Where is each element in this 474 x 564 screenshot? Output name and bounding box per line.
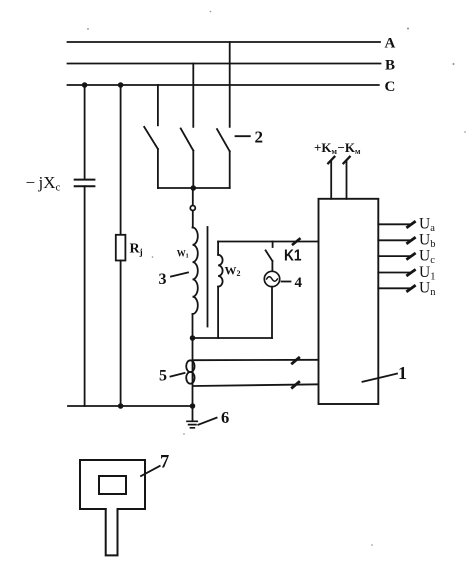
- svg-text:6: 6: [221, 408, 229, 427]
- wire capacitor branch lower: [84, 186, 86, 406]
- wire W2 top to box: [218, 241, 318, 243]
- leader dash to label 6: [198, 418, 216, 425]
- svg-text:− jXc: − jXc: [26, 173, 61, 194]
- coil 5 loop upper: [186, 360, 194, 372]
- wire W2 upper lead: [217, 242, 219, 255]
- wire switch drop phase C: [157, 85, 159, 125]
- switch 2 pole b blade: [181, 129, 194, 151]
- wire output Un: [378, 287, 409, 289]
- wire ground lead: [192, 406, 194, 421]
- hatch slash on upper coil wire: [292, 358, 299, 364]
- wire W2 lower lead: [217, 287, 219, 338]
- leader dash to label 3: [171, 273, 188, 277]
- wire switch drop phase B: [192, 64, 194, 127]
- wire bottom rail: [68, 405, 193, 407]
- probe 7 window: [99, 476, 126, 494]
- node dot rail main: [190, 403, 196, 409]
- svg-text:7: 7: [160, 453, 169, 473]
- wire W1 bottom to junction: [192, 314, 194, 338]
- wire output Ul: [378, 272, 409, 274]
- wire main vertical above terminal: [192, 188, 194, 206]
- switch 2 pole c blade: [217, 129, 230, 151]
- arrow slash Ub: [408, 238, 415, 243]
- wire switch drop phase A: [229, 42, 231, 127]
- svg-text:4: 4: [295, 275, 303, 291]
- hatch slash on wire to box: [293, 239, 300, 244]
- wire lamp to bottom: [271, 287, 273, 338]
- svg-text:3: 3: [159, 271, 167, 288]
- measuring unit box 1: [319, 199, 379, 404]
- wire -Km lead: [346, 161, 348, 199]
- wire switch output rail: [158, 187, 230, 189]
- arrow slash Un: [408, 286, 415, 291]
- wire coil 5 lower to box: [194, 384, 319, 386]
- node dot bus C / capacitor tap: [82, 82, 88, 88]
- wire output Ua: [378, 223, 409, 225]
- node dot bottom loop: [190, 335, 196, 341]
- arrow slash Uc: [408, 254, 415, 259]
- node terminal circle: [190, 206, 195, 211]
- probe 7 stem: [106, 509, 118, 555]
- leader dash to label 4: [282, 281, 291, 283]
- leader dash to label 7: [141, 466, 160, 476]
- svg-text:A: A: [385, 36, 396, 52]
- lamp 4 circle: [264, 271, 279, 286]
- bus line A: [68, 41, 381, 43]
- wire bottom of measuring loop: [193, 337, 273, 339]
- leader dash to label 5: [171, 373, 185, 377]
- wire Rj branch upper: [120, 85, 122, 235]
- node dot rail Rj: [118, 403, 124, 409]
- leader dash to label 2: [236, 135, 250, 137]
- arrow slash Ul: [408, 270, 415, 275]
- arrow slash +Km: [328, 157, 334, 164]
- leader dash to label 1: [363, 374, 398, 382]
- hatch slash on lower coil wire: [292, 382, 299, 388]
- scan specks: [87, 11, 466, 546]
- wire terminal to W1: [192, 211, 194, 228]
- svg-text:2: 2: [255, 128, 264, 147]
- capacitor -jXc plates: [75, 180, 95, 187]
- transformer winding W1: [193, 228, 198, 315]
- svg-text:1: 1: [398, 363, 407, 383]
- wire switch lower leads: [158, 149, 230, 188]
- svg-text:5: 5: [159, 367, 167, 384]
- node dot bus C / Rj tap: [118, 82, 124, 88]
- resistor Rj: [116, 235, 126, 261]
- node dot switch rail: [191, 185, 197, 191]
- wire coil 5 upper to box: [194, 359, 319, 361]
- relay contact K1 stub: [272, 242, 274, 248]
- coil 5 loop lower: [186, 372, 194, 384]
- svg-text:C: C: [385, 79, 396, 95]
- transformer winding W2: [218, 255, 223, 287]
- transformer core: [207, 227, 209, 327]
- wire output Uc: [378, 255, 409, 257]
- wire +Km lead: [330, 161, 332, 199]
- wire K1 to lamp: [271, 261, 273, 271]
- wire output Ub: [378, 239, 409, 241]
- bus line C: [68, 84, 379, 86]
- arrow slash -Km: [344, 157, 350, 164]
- lamp 4 sine: [267, 277, 278, 281]
- relay contact K1 blade: [266, 250, 273, 261]
- wire Rj branch lower: [120, 261, 122, 407]
- ground symbol: [187, 421, 197, 428]
- switch 2 pole a blade: [144, 127, 158, 149]
- svg-text:K1: K1: [284, 248, 302, 265]
- wire capacitor branch upper: [84, 85, 86, 178]
- wire main vertical through coil 5: [192, 338, 194, 406]
- svg-text:B: B: [385, 58, 395, 74]
- bus line B: [68, 63, 381, 65]
- probe 7 body: [80, 460, 145, 509]
- arrow slash Ua: [408, 222, 415, 227]
